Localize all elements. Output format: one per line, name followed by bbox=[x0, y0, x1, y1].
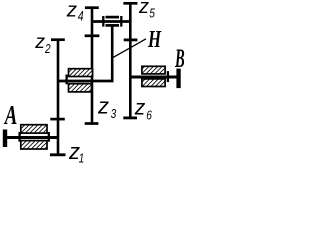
svg-text:z: z bbox=[34, 31, 45, 53]
shaft A bearing tick right bbox=[48, 132, 50, 142]
shaft A bearing upper block bbox=[21, 125, 47, 133]
svg-text:2: 2 bbox=[44, 42, 51, 56]
label A (input shaft) bbox=[3, 101, 17, 131]
svg-text:5: 5 bbox=[149, 6, 155, 20]
carrier fork upper bar bbox=[106, 16, 120, 19]
gear z1 bottom rim bar bbox=[50, 153, 66, 156]
carrier fork lower bar bbox=[106, 24, 120, 27]
svg-text:z: z bbox=[97, 93, 109, 118]
svg-text:A: A bbox=[3, 101, 17, 131]
shaft B bearing tick bbox=[167, 71, 169, 82]
svg-text:6: 6 bbox=[146, 108, 152, 122]
shaft A bbox=[4, 136, 58, 139]
shaft A end cap bbox=[3, 130, 7, 148]
shaft A bearing lower block bbox=[21, 141, 47, 149]
planet bearing upper block bbox=[69, 69, 93, 77]
mesh bar z1-z2 bbox=[50, 118, 65, 121]
mesh bar z3-z4 bbox=[85, 34, 100, 37]
top shaft (z4-z5 shaft) bbox=[92, 20, 130, 23]
svg-text:H: H bbox=[147, 27, 162, 52]
gear z5 top rim bar bbox=[123, 2, 137, 5]
leader line to carrier H bbox=[113, 39, 147, 58]
label B (output shaft) bbox=[174, 44, 184, 74]
svg-text:z: z bbox=[66, 0, 77, 21]
gear z3 bottom rim bar bbox=[85, 122, 99, 125]
shaft B bbox=[130, 76, 176, 79]
gear z4 top rim bar bbox=[85, 6, 99, 9]
carrier bar (planet shaft) bbox=[58, 80, 114, 83]
carrier arm V3 bbox=[111, 25, 114, 81]
label H (carrier) bbox=[147, 27, 162, 52]
shaft collar tick left bbox=[102, 16, 104, 27]
svg-text:4: 4 bbox=[78, 8, 84, 24]
svg-text:z: z bbox=[134, 96, 146, 119]
shaft B end cap bbox=[176, 69, 180, 89]
svg-text:1: 1 bbox=[79, 151, 85, 165]
svg-text:3: 3 bbox=[111, 107, 117, 121]
mesh bar z5-z6 bbox=[124, 39, 138, 42]
shaft B bearing lower block bbox=[142, 79, 165, 87]
shaft collar tick right bbox=[120, 16, 122, 27]
planet bearing lower block bbox=[69, 84, 92, 92]
shaft A bearing tick left bbox=[18, 132, 20, 142]
shaft B bearing upper block bbox=[142, 66, 165, 74]
svg-text:B: B bbox=[174, 44, 184, 74]
gear z2 / gear z1 common line V1 bbox=[57, 39, 60, 156]
planet bearing tick bbox=[65, 75, 67, 85]
gear z6 bottom rim bar bbox=[123, 117, 137, 120]
svg-text:z: z bbox=[138, 0, 149, 18]
gear z5 / gear z6 common line V4 bbox=[129, 2, 132, 119]
gear z4 / gear z3 common line V2 bbox=[91, 6, 94, 124]
gear z2 top rim bar bbox=[51, 38, 65, 41]
